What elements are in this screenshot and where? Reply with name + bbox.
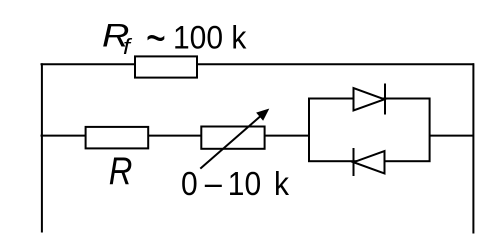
label Rf <box>102 18 129 54</box>
variable resistor 0-10k body <box>201 127 264 149</box>
diode D1 top, anode left, pointing right <box>354 88 385 111</box>
svg-text:0: 0 <box>181 165 198 203</box>
resistor Rf body <box>135 56 197 77</box>
diode pair loop rectangle <box>309 99 430 162</box>
label 0 - 10 k <box>181 165 198 203</box>
label R <box>109 148 133 193</box>
wire: top feedback branch horizontal <box>41 63 475 65</box>
svg-text:k: k <box>274 165 289 203</box>
wire: right vertical rail <box>472 63 474 233</box>
svg-text:~: ~ <box>146 10 166 65</box>
svg-text:10: 10 <box>228 165 261 203</box>
diode D2 cathode bar <box>353 148 355 176</box>
svg-text:100 k: 100 k <box>173 19 247 55</box>
resistor R body <box>86 127 149 148</box>
svg-text:R: R <box>109 148 133 193</box>
wire: middle input branch horizontal <box>41 135 310 137</box>
label ~ 100 k <box>146 10 166 65</box>
diode D2 bottom, anode right, pointing left <box>354 151 385 174</box>
wire: diode pair to right rail <box>430 135 474 137</box>
wire: left vertical rail <box>41 63 43 232</box>
variable resistor arrow head <box>257 109 268 120</box>
variable resistor arrow shaft <box>200 115 261 168</box>
diode D1 cathode bar <box>384 84 386 115</box>
